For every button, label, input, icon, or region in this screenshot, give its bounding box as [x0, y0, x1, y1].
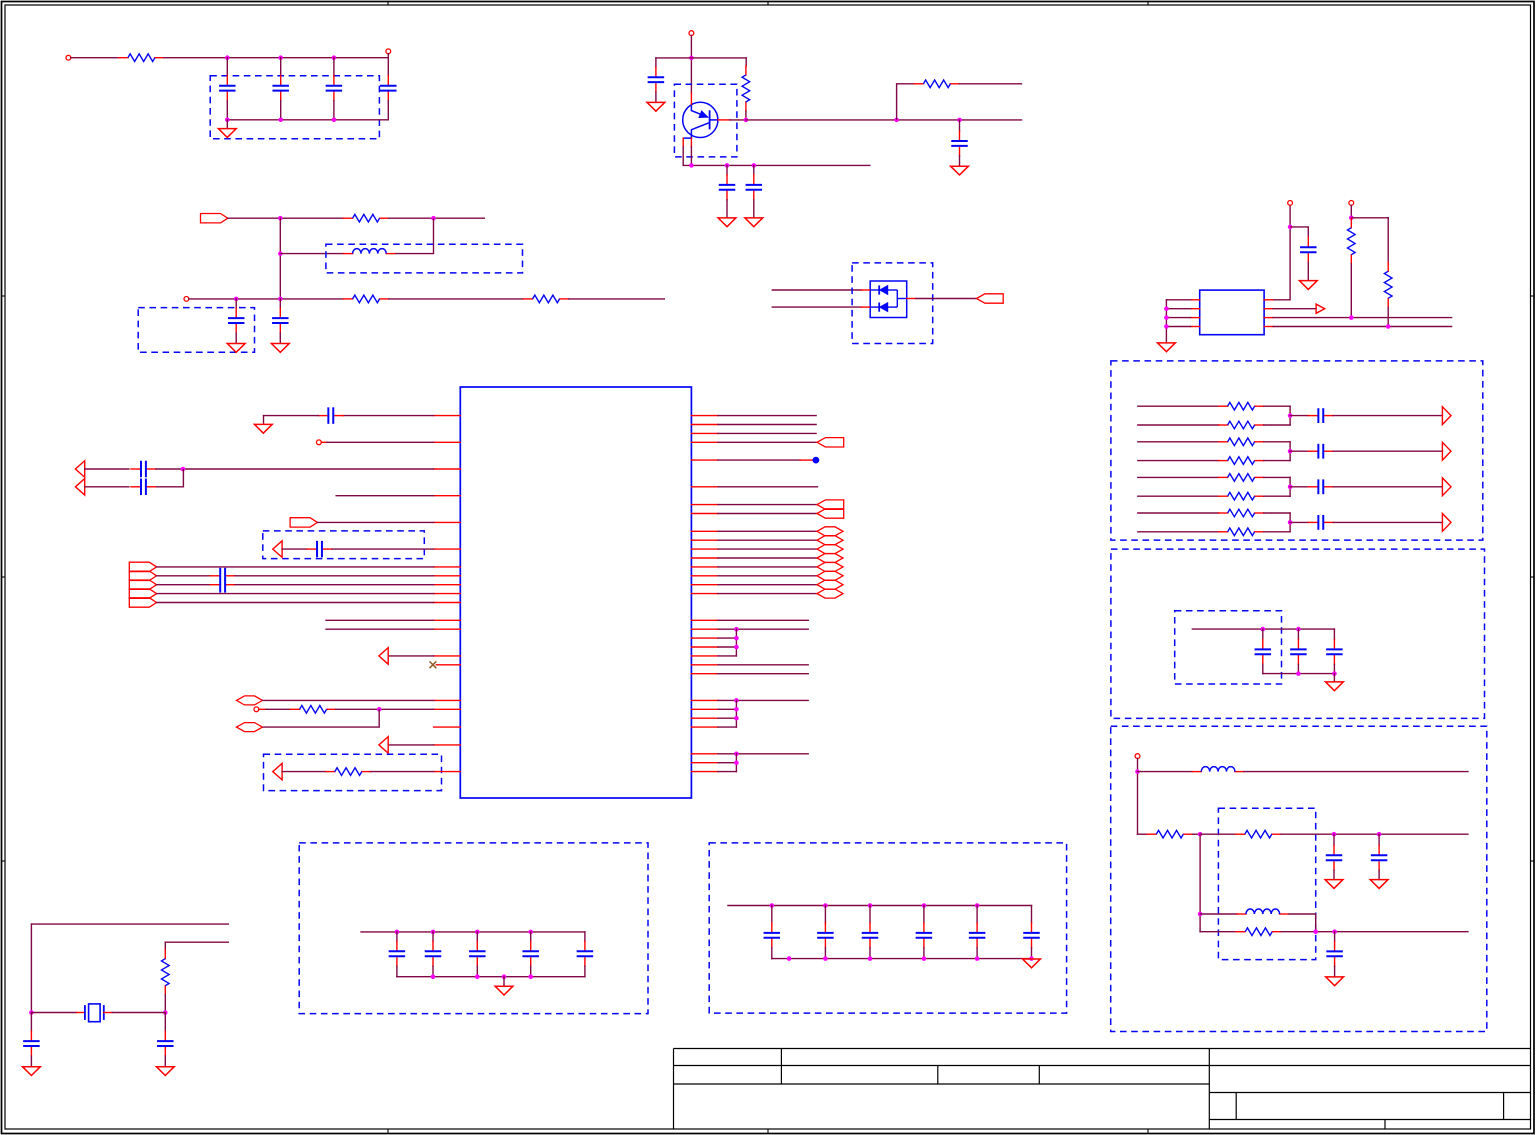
port BIDIR6 — [817, 554, 843, 563]
junction — [1349, 315, 1354, 320]
wire — [1138, 495, 1219, 497]
wire — [156, 469, 184, 487]
junction — [278, 251, 283, 256]
wire — [728, 905, 1032, 907]
port arrow A2 — [1442, 407, 1451, 425]
wire — [164, 995, 166, 1013]
wire — [371, 771, 434, 773]
wire — [1378, 834, 1380, 845]
capacitor C30 — [389, 941, 406, 966]
capacitor C20 — [1371, 845, 1388, 870]
capacitor C9 — [719, 175, 736, 200]
capacitor C22 — [318, 407, 343, 424]
wire — [157, 566, 434, 568]
wire — [683, 164, 870, 166]
wire — [327, 441, 434, 443]
wire — [718, 441, 817, 443]
junction — [868, 956, 873, 961]
pin — [691, 753, 718, 755]
wire — [1387, 218, 1389, 262]
capacitor C6 — [272, 308, 289, 333]
junction — [1288, 449, 1293, 454]
power terminal J6 — [1349, 201, 1354, 206]
wire — [1350, 205, 1352, 218]
wire — [530, 932, 532, 941]
junction — [234, 297, 239, 302]
wire — [745, 58, 747, 66]
wire — [164, 1056, 166, 1067]
resistor R14 — [1219, 492, 1264, 500]
wire — [396, 932, 398, 941]
junction — [957, 118, 962, 123]
wire — [1297, 664, 1299, 673]
pin — [434, 726, 461, 728]
wire — [235, 584, 434, 586]
pin — [434, 708, 461, 710]
wire — [333, 101, 335, 120]
wire — [264, 415, 319, 417]
pin — [434, 699, 461, 701]
pin — [434, 575, 461, 577]
wire — [1334, 966, 1336, 976]
capacitor C13 — [1308, 444, 1333, 459]
wire — [923, 948, 925, 959]
port BIDIR7 — [817, 562, 843, 571]
pin — [691, 504, 718, 506]
junction — [922, 903, 927, 908]
port arrow A7 — [75, 479, 84, 496]
port BIDIR9 — [817, 580, 843, 589]
ground — [647, 102, 665, 111]
resistor R15 — [1219, 509, 1264, 517]
pin — [434, 521, 461, 523]
junction — [1261, 627, 1266, 632]
wire — [31, 1012, 76, 1014]
dashed group box — [138, 308, 254, 353]
wire — [976, 948, 978, 959]
port arrow A9 — [379, 648, 388, 665]
wire — [1264, 299, 1273, 301]
wire — [730, 119, 746, 121]
dashed group box — [674, 84, 737, 157]
junction — [734, 627, 739, 632]
wire — [718, 548, 817, 550]
wire — [317, 521, 433, 523]
wire — [718, 655, 736, 657]
wire — [227, 119, 388, 121]
pin — [691, 566, 718, 568]
wire — [1137, 759, 1139, 835]
pin — [434, 602, 461, 604]
wire — [85, 486, 129, 488]
port OUT3 — [817, 500, 844, 509]
pin — [691, 513, 718, 515]
junction — [734, 645, 739, 650]
junction — [1288, 485, 1293, 490]
wire — [387, 58, 389, 76]
port BIDIR10 — [817, 589, 843, 598]
resistor R21 — [326, 768, 371, 776]
wire — [718, 708, 736, 710]
resistor R13 — [1219, 474, 1264, 482]
wire — [1333, 486, 1442, 488]
port BIDIR5 — [817, 545, 843, 554]
port OUT1 — [977, 294, 1004, 303]
port BIDIR2 — [237, 723, 263, 732]
wire — [1138, 441, 1219, 443]
wire — [735, 700, 737, 727]
wire — [279, 299, 281, 308]
capacitor C18 — [1326, 639, 1343, 664]
capacitor C39 — [969, 923, 986, 948]
resistor R19 — [1236, 928, 1281, 936]
wire — [30, 1013, 32, 1032]
port BIDIR3 — [817, 527, 843, 536]
capacitor C15 — [1308, 515, 1333, 530]
wire — [1289, 513, 1291, 532]
wire — [189, 298, 344, 300]
wire — [718, 699, 808, 701]
wire — [387, 101, 389, 120]
wire — [718, 771, 736, 773]
junction — [1288, 520, 1293, 525]
wire — [1378, 870, 1380, 879]
wire — [824, 906, 826, 923]
ground — [1158, 343, 1176, 352]
junction — [431, 974, 436, 979]
dashed group box — [1175, 611, 1282, 684]
wire — [718, 762, 736, 764]
wire — [263, 699, 434, 701]
wire — [336, 495, 433, 497]
junction — [894, 118, 899, 123]
wire — [343, 415, 433, 417]
wire — [326, 619, 434, 621]
port BUS3 — [129, 580, 156, 589]
port arrow A5 — [1442, 514, 1451, 532]
wire — [333, 58, 335, 76]
wire — [1264, 317, 1273, 319]
wire — [718, 717, 736, 719]
wire — [745, 111, 747, 120]
no-connect X — [430, 661, 437, 668]
wire — [1191, 299, 1200, 301]
wire — [1138, 512, 1219, 514]
wire — [390, 655, 434, 657]
wire — [476, 932, 478, 941]
wire — [718, 753, 808, 755]
pin — [691, 726, 718, 728]
junction — [734, 636, 739, 641]
port arrow A1 — [1316, 304, 1325, 313]
resistor R12 — [1219, 457, 1264, 465]
wire — [165, 941, 228, 943]
wire — [655, 92, 657, 102]
wire — [718, 415, 816, 417]
resistor R4 — [524, 295, 569, 303]
ground — [23, 1067, 41, 1076]
wire — [1289, 406, 1291, 425]
wire — [869, 906, 871, 923]
capacitor plates C26 C27 — [219, 568, 221, 593]
dashed group box — [1111, 361, 1483, 540]
port arrow A10 — [379, 737, 388, 754]
power terminal J5 — [1288, 201, 1293, 206]
wire — [1200, 913, 1237, 915]
wire — [718, 566, 817, 568]
wire — [1165, 300, 1167, 343]
junction — [1164, 306, 1169, 311]
ground — [718, 218, 736, 227]
wire — [389, 298, 524, 300]
wire — [916, 298, 977, 300]
junction — [431, 930, 436, 935]
wire — [1387, 307, 1389, 326]
resistor R7 — [1348, 219, 1356, 264]
junction — [922, 956, 927, 961]
wire — [718, 432, 816, 434]
wire — [1289, 442, 1291, 461]
wire — [1273, 308, 1316, 310]
wire — [976, 906, 978, 923]
pin — [691, 699, 718, 701]
junction — [689, 56, 694, 61]
capacitor C28 — [23, 1031, 40, 1056]
capacitor C12 — [1308, 408, 1333, 423]
wire — [332, 548, 434, 550]
wire — [85, 468, 129, 470]
port IN2 — [290, 518, 317, 527]
junction — [1029, 956, 1034, 961]
pin — [434, 548, 461, 550]
resistor R18 — [1236, 830, 1281, 838]
pin — [436, 664, 460, 666]
wire — [771, 906, 773, 923]
dashed group box — [299, 843, 648, 1014]
resistor R22 — [162, 950, 170, 995]
junction — [163, 1010, 168, 1015]
pin — [434, 593, 461, 595]
wire — [390, 744, 434, 746]
wire — [530, 966, 532, 977]
title block — [674, 1049, 1531, 1130]
pin — [691, 459, 718, 461]
dual diode D1 — [861, 281, 916, 318]
power terminal J1 — [66, 55, 71, 60]
port BIDIR8 — [817, 571, 843, 580]
wire — [226, 101, 228, 120]
wire — [395, 218, 433, 253]
wire — [1264, 531, 1290, 533]
wire — [959, 120, 961, 131]
IC U1 — [460, 387, 691, 798]
wire — [1264, 460, 1290, 462]
wire — [1199, 834, 1201, 932]
port BUS4 — [129, 589, 156, 598]
junction — [1198, 912, 1203, 917]
pin — [691, 762, 718, 764]
wire — [718, 584, 817, 586]
ground — [271, 344, 289, 353]
port BIDIR4 — [817, 536, 843, 545]
wire — [235, 333, 237, 343]
wire — [112, 1012, 165, 1014]
wire — [1289, 914, 1316, 932]
wire — [1191, 308, 1200, 310]
wire — [30, 1056, 32, 1067]
dashed group box — [1111, 726, 1487, 1031]
capacitor C1 — [219, 76, 236, 101]
capacitor C11 — [1300, 237, 1317, 262]
junction — [1164, 315, 1169, 320]
wire — [690, 147, 692, 166]
inductor L2 — [1192, 767, 1244, 772]
pin — [691, 539, 718, 541]
junction — [278, 55, 283, 60]
resistor R20 — [291, 706, 336, 714]
ground — [156, 1067, 174, 1076]
wire — [1281, 833, 1468, 835]
transistor Q1 — [683, 93, 730, 147]
junction — [1332, 929, 1337, 934]
port arrow A3 — [1442, 442, 1451, 460]
wire — [718, 459, 800, 461]
junction — [278, 118, 283, 123]
junction — [1198, 832, 1203, 837]
capacitor C17 — [1290, 639, 1307, 664]
capacitor C37 — [862, 923, 879, 948]
pin — [691, 708, 718, 710]
wire — [1264, 441, 1290, 443]
pin — [691, 771, 718, 773]
junction — [1135, 769, 1140, 774]
capacitor C10 — [746, 175, 763, 200]
wire — [1264, 308, 1273, 310]
wire — [1333, 674, 1335, 682]
wire — [718, 575, 817, 577]
wire — [282, 548, 307, 550]
wire — [31, 923, 228, 925]
wire — [1289, 477, 1291, 496]
pin — [691, 664, 718, 666]
junction — [1386, 324, 1391, 329]
wire — [1264, 512, 1290, 514]
junction — [1164, 324, 1169, 329]
junction — [752, 163, 757, 168]
pin — [691, 717, 718, 719]
junction — [744, 118, 749, 123]
capacitor C23 — [131, 461, 156, 478]
wire — [1263, 673, 1335, 675]
wire — [718, 664, 808, 666]
pin — [691, 441, 718, 443]
capacitor C7 — [648, 67, 665, 92]
junction — [823, 956, 828, 961]
wire — [1334, 932, 1336, 942]
wire — [282, 771, 326, 773]
wire — [718, 513, 817, 515]
junction — [528, 974, 533, 979]
ground — [227, 344, 245, 353]
pin — [434, 744, 461, 746]
capacitor C3 — [326, 76, 343, 101]
junction — [770, 903, 775, 908]
junction — [734, 752, 739, 757]
junction — [1332, 671, 1337, 676]
port arrow A8 — [273, 541, 282, 558]
resistor R9 — [1219, 402, 1264, 410]
wire — [280, 101, 282, 120]
junction — [431, 216, 436, 221]
crystal Y1 — [77, 1004, 113, 1022]
wire — [1281, 931, 1468, 933]
capacitor C35 — [764, 923, 781, 948]
wire — [1351, 217, 1388, 219]
capacitor C21 — [1326, 941, 1343, 966]
wire — [1264, 476, 1290, 478]
resistor R11 — [1219, 438, 1264, 446]
resistor R10 — [1219, 421, 1264, 429]
power terminal J9 — [254, 707, 259, 712]
wire — [690, 36, 692, 94]
inductor L1 — [344, 249, 396, 254]
IC U2 — [1200, 290, 1264, 335]
ground — [951, 166, 969, 175]
wire — [718, 424, 816, 426]
junction — [181, 467, 186, 472]
resistor R3 — [344, 295, 389, 303]
wire — [718, 539, 817, 541]
capacitor C5 — [228, 308, 245, 333]
capacitor C26 — [210, 575, 235, 577]
ground — [1326, 682, 1344, 691]
power terminal J8 — [317, 440, 322, 445]
wire — [923, 906, 925, 923]
power terminal J2 — [386, 49, 391, 54]
pin — [691, 530, 718, 532]
capacitor C36 — [817, 923, 834, 948]
pin — [691, 584, 718, 586]
wire — [584, 966, 586, 977]
junction — [377, 707, 382, 712]
pin — [691, 432, 718, 434]
capacitor C33 — [522, 941, 539, 966]
ground — [1299, 281, 1317, 290]
port BUS2 — [129, 571, 156, 580]
wire — [71, 57, 119, 59]
wire — [30, 924, 32, 1012]
pin — [434, 468, 461, 470]
wire — [655, 58, 657, 67]
wire — [157, 602, 434, 604]
wire — [280, 253, 343, 255]
wire — [397, 976, 585, 978]
ground — [495, 986, 513, 995]
resistor R1 — [119, 54, 164, 62]
capacitor C16 — [1255, 639, 1272, 664]
wire — [263, 416, 265, 425]
junction — [823, 903, 828, 908]
wire — [1290, 415, 1308, 417]
wire — [656, 57, 746, 59]
wire — [1350, 264, 1352, 318]
wire — [1333, 450, 1442, 452]
dashed group box — [1111, 549, 1485, 718]
capacitor C40 — [1023, 923, 1040, 948]
junction — [29, 1010, 34, 1015]
dashed group box — [210, 76, 379, 139]
wire — [1192, 628, 1334, 630]
